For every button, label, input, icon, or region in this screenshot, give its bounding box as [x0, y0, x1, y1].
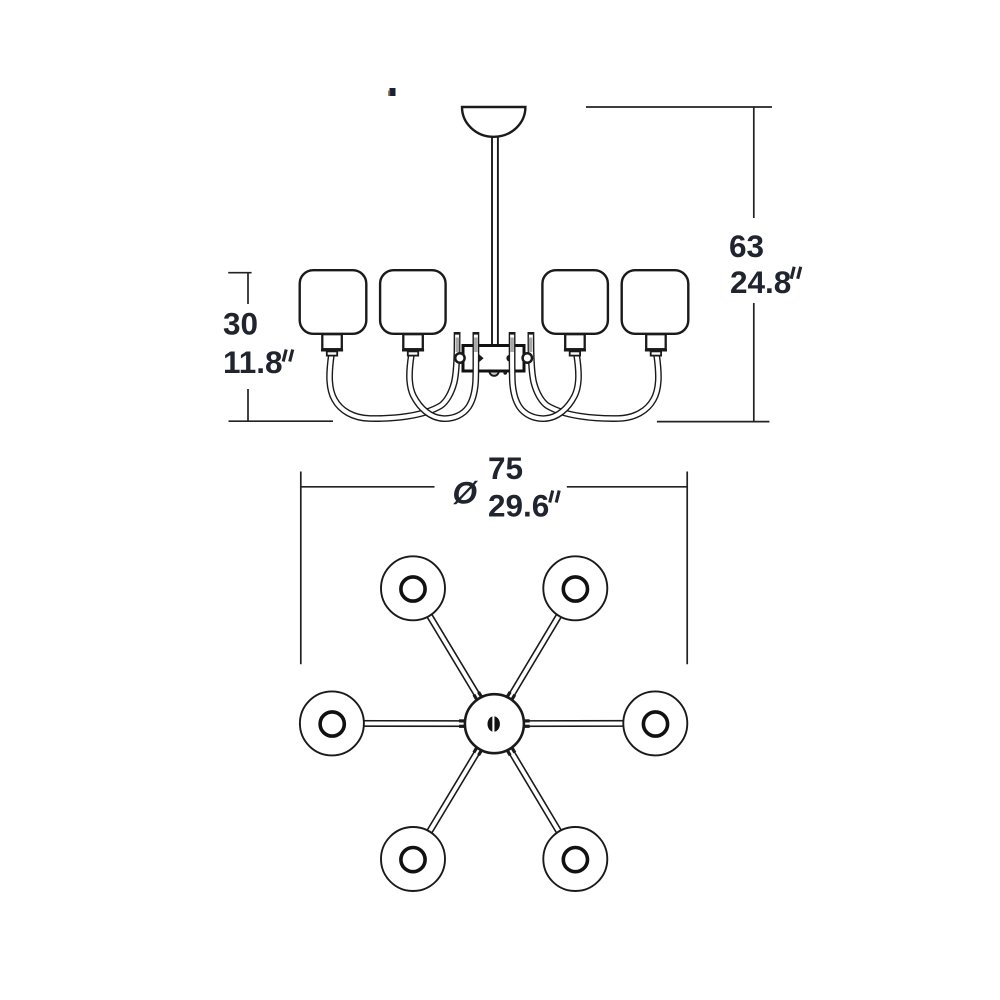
arm A1 outer-left — [330, 332, 458, 419]
right dimension — [586, 107, 772, 422]
svg-text:30: 30 — [223, 306, 258, 342]
top view: diameter dimension — [301, 472, 687, 665]
shade 4 outer-right — [622, 270, 689, 355]
canopy dome — [462, 107, 525, 137]
svg-text:75: 75 — [488, 450, 523, 486]
arm A3 inner-right — [512, 332, 578, 419]
junction beads — [459, 692, 530, 755]
shade 2 inner-left — [380, 270, 446, 355]
svg-text:11.8: 11.8 — [223, 344, 283, 380]
svg-text:Ø: Ø — [453, 475, 479, 511]
hub side rings — [455, 353, 532, 362]
hub block — [463, 346, 524, 376]
artifact mark — [388, 88, 395, 96]
svg-text:24.8: 24.8 — [730, 264, 791, 300]
arm A2 inner-left — [409, 332, 475, 419]
shade 3 inner-right — [542, 270, 608, 355]
arm A4 outer-right — [531, 332, 659, 419]
stem — [492, 133, 498, 347]
top view arms — [332, 588, 655, 859]
svg-text:63: 63 — [729, 228, 764, 264]
top view hub — [465, 694, 524, 753]
shade 1 outer-left — [300, 270, 367, 355]
top view shade circles — [300, 556, 687, 891]
left dimension — [228, 272, 333, 421]
svg-text:29.6: 29.6 — [488, 488, 549, 524]
